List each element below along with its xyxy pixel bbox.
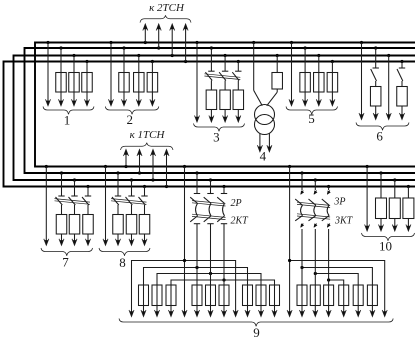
svg-text:1: 1	[64, 112, 71, 127]
svg-text:к 1ТСН: к 1ТСН	[130, 129, 166, 141]
svg-text:3: 3	[213, 130, 220, 145]
svg-text:9: 9	[253, 325, 260, 337]
svg-text:к 2ТСН: к 2ТСН	[149, 2, 185, 14]
svg-text:4: 4	[260, 148, 267, 163]
svg-text:2: 2	[126, 112, 133, 127]
svg-text:2Р: 2Р	[231, 198, 242, 209]
svg-text:8: 8	[119, 255, 126, 270]
svg-text:3КТ: 3КТ	[334, 216, 354, 227]
svg-text:10: 10	[379, 239, 392, 254]
svg-text:6: 6	[376, 129, 383, 144]
svg-text:5: 5	[308, 111, 315, 126]
svg-text:3Р: 3Р	[333, 197, 345, 208]
svg-text:2КТ: 2КТ	[231, 215, 250, 226]
svg-text:7: 7	[62, 254, 69, 269]
